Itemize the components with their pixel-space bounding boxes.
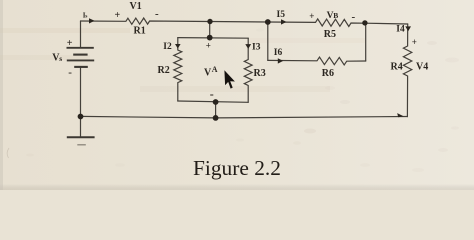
svg-text:-: - [210, 87, 214, 101]
svg-text:-: - [352, 11, 356, 23]
svg-text:s: s [85, 14, 87, 20]
svg-text:+: + [67, 38, 73, 49]
svg-text:+: + [309, 11, 314, 21]
svg-text:R6: R6 [322, 68, 334, 79]
svg-text:Figure 2.2: Figure 2.2 [193, 156, 281, 180]
svg-text:+: + [412, 37, 417, 47]
svg-text:B: B [333, 11, 338, 20]
svg-text:+: + [206, 41, 211, 51]
svg-text:I6: I6 [274, 48, 283, 58]
svg-text:R4: R4 [391, 62, 403, 73]
svg-text:I3: I3 [252, 43, 261, 53]
svg-text:I4: I4 [396, 24, 405, 34]
svg-text:R1: R1 [134, 26, 146, 37]
svg-text:A: A [212, 65, 218, 74]
svg-text:I5: I5 [277, 10, 286, 20]
svg-text:-: - [155, 8, 159, 20]
svg-text:s: s [59, 54, 62, 63]
svg-text:I2: I2 [163, 42, 172, 52]
svg-text:+: + [115, 10, 121, 21]
svg-text:V1: V1 [130, 1, 142, 12]
svg-text:V: V [204, 68, 212, 79]
svg-text:R3: R3 [254, 68, 266, 79]
svg-text:-: - [68, 67, 72, 79]
svg-text:V4: V4 [416, 62, 428, 73]
svg-text:R2: R2 [158, 65, 170, 76]
svg-text:R5: R5 [324, 29, 336, 40]
